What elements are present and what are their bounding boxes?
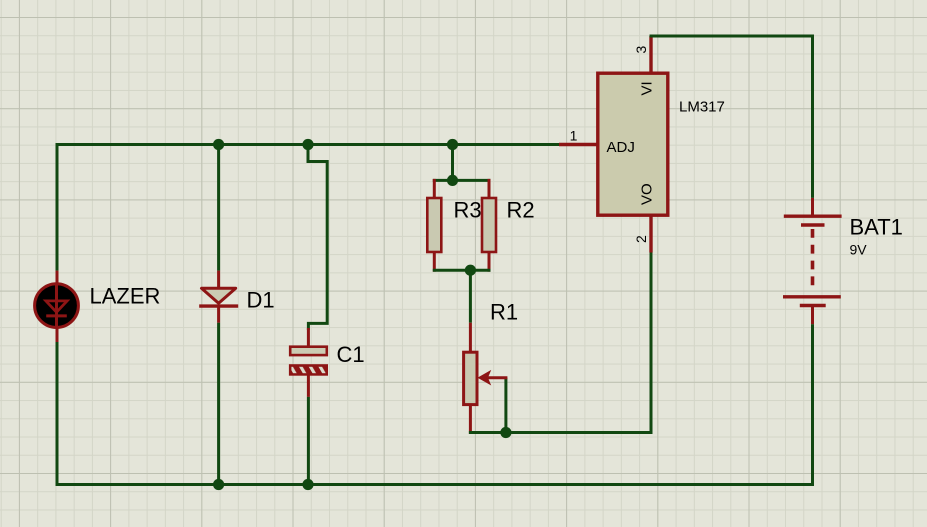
battery BAT1 bbox=[783, 216, 842, 305]
wire D1 column lower green bbox=[217, 323, 220, 486]
junction dot R3 R2 top bbox=[447, 175, 458, 186]
wire R2 bottom stub red bbox=[488, 252, 491, 272]
svg-text:BAT1: BAT1 bbox=[850, 215, 903, 240]
wire D1 cathode stub red bbox=[217, 306, 220, 323]
wire left vertical upper green bbox=[56, 143, 59, 271]
wire D1 column upper green bbox=[217, 143, 220, 271]
wire top rail green bbox=[56, 143, 560, 146]
wire C1 branch jog green bbox=[308, 145, 327, 331]
wire battery to bottom rail green bbox=[811, 324, 814, 486]
wire R1 wiper horizontal red bbox=[488, 376, 507, 379]
wire pin 3 stub red bbox=[649, 36, 652, 73]
wire VO return green bbox=[469, 253, 651, 433]
junction dot wiper return bbox=[500, 427, 511, 438]
svg-text:ADJ: ADJ bbox=[607, 139, 635, 156]
svg-text:VI: VI bbox=[639, 81, 656, 95]
svg-text:D1: D1 bbox=[247, 288, 275, 313]
laser diode LAZER bbox=[35, 284, 79, 328]
wire C1 bottom stub red bbox=[307, 375, 310, 397]
wire D1 anode stub red bbox=[217, 271, 220, 288]
wire R3 R2 bottom link green bbox=[433, 269, 491, 272]
svg-text:LM317: LM317 bbox=[679, 99, 725, 116]
svg-text:R1: R1 bbox=[490, 300, 518, 325]
diode D1 bbox=[199, 288, 238, 306]
resistor R3 bbox=[427, 198, 441, 252]
junction dot bottom rail at C1 bbox=[302, 479, 313, 490]
wire R3 R2 top link green bbox=[433, 179, 491, 182]
junction dot R3 R2 bottom bbox=[465, 265, 476, 276]
wire R1 wiper drop green bbox=[504, 378, 507, 433]
potentiometer R1 bbox=[464, 352, 490, 404]
wire top right rail green bbox=[650, 36, 813, 198]
svg-text:2: 2 bbox=[633, 235, 649, 243]
svg-text:1: 1 bbox=[570, 128, 578, 144]
wire C1 column lower green bbox=[307, 397, 310, 486]
svg-text:LAZER: LAZER bbox=[90, 284, 161, 309]
wire pin 1 stub red bbox=[559, 143, 597, 146]
wire R1 feed green bbox=[469, 270, 472, 323]
wire C1 top stub red bbox=[307, 328, 310, 346]
wire bottom rail green bbox=[56, 483, 815, 486]
svg-text:3: 3 bbox=[633, 46, 649, 54]
wire R1 top stub red bbox=[469, 323, 472, 352]
svg-text:9V: 9V bbox=[850, 242, 868, 258]
svg-text:R2: R2 bbox=[507, 197, 535, 222]
regulator U1 LM317 body bbox=[598, 73, 668, 215]
resistor R2 bbox=[482, 198, 496, 252]
wire R2 top stub red bbox=[488, 179, 491, 198]
svg-text:VO: VO bbox=[639, 183, 656, 205]
wire lazer top stub red bbox=[56, 271, 59, 285]
svg-text:C1: C1 bbox=[337, 342, 365, 367]
junction dot top rail at D1 bbox=[213, 139, 224, 150]
wire R3 bottom stub red bbox=[433, 252, 436, 272]
wire left vertical lower green bbox=[56, 342, 59, 486]
wire lazer bottom stub red bbox=[56, 327, 59, 342]
wire R divider tap green bbox=[451, 145, 454, 181]
wire pin 2 stub red bbox=[649, 216, 652, 253]
junction dot top rail at divider bbox=[447, 139, 458, 150]
svg-text:R3: R3 bbox=[454, 197, 482, 222]
junction dot top rail at C1 bbox=[302, 139, 313, 150]
wire battery bottom stub red bbox=[811, 306, 814, 324]
junction dot bottom rail at D1 bbox=[213, 479, 224, 490]
wire R1 bottom stub red bbox=[469, 405, 472, 434]
wire R3 top stub red bbox=[433, 179, 436, 198]
capacitor C1 bbox=[289, 347, 328, 376]
wire battery top stub red bbox=[811, 198, 814, 216]
